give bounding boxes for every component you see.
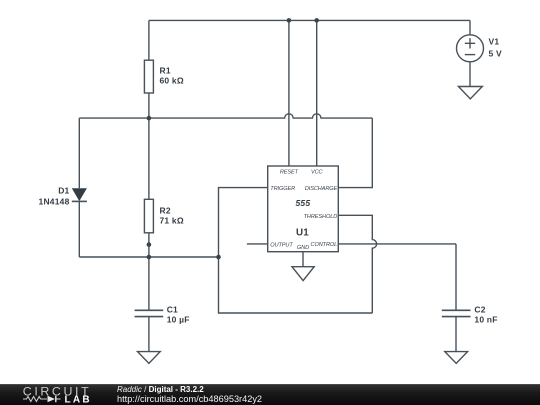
wire trigger branch	[219, 188, 373, 313]
node vcc rail junction	[314, 18, 319, 23]
capacitor C2	[442, 310, 471, 316]
node R1 bottom junction	[147, 116, 152, 121]
wire threshold branch with hop	[338, 215, 376, 313]
ground U1	[292, 267, 314, 281]
resistor R1	[144, 60, 153, 93]
wire C1 bottom lead	[148, 317, 150, 352]
wire top rail	[149, 19, 470, 21]
voltage source V1	[457, 35, 484, 62]
svg-text:R1: R1	[160, 66, 171, 76]
wire R2 bottom lead	[148, 233, 150, 257]
CircuitLab logo	[0, 384, 110, 405]
svg-text:U1: U1	[296, 228, 309, 239]
resistor R2	[144, 199, 153, 233]
wire reset riser	[288, 20, 290, 166]
svg-text:CONTROL: CONTROL	[311, 242, 338, 248]
wire bottom-left horizontal	[79, 256, 218, 258]
svg-text:LAB: LAB	[65, 395, 92, 405]
wire C2 top lead	[455, 244, 457, 310]
ground V1	[458, 87, 482, 99]
svg-text:VCC: VCC	[311, 169, 324, 175]
wire U1 gnd lead	[302, 252, 304, 267]
svg-text:5 V: 5 V	[489, 49, 502, 59]
wire R1 bottom lead	[148, 93, 150, 118]
footer bar	[0, 384, 540, 405]
capacitor C1	[135, 310, 164, 316]
node R2 bottom	[147, 242, 152, 247]
node trigger junction	[216, 255, 221, 260]
wire output stub	[247, 243, 268, 245]
svg-text:C1: C1	[167, 305, 178, 315]
node C1 top junction	[147, 255, 152, 260]
svg-text:GND: GND	[297, 245, 309, 251]
svg-text:10 µF: 10 µF	[167, 315, 190, 325]
svg-text:OUTPUT: OUTPUT	[270, 242, 293, 248]
ground C1	[138, 352, 161, 364]
footer text	[117, 385, 204, 394]
svg-text:71 kΩ: 71 kΩ	[160, 216, 184, 226]
svg-text:THRESHOLD: THRESHOLD	[304, 214, 338, 220]
wire control to C2	[338, 243, 456, 245]
wire D1 cathode lead	[78, 201, 80, 257]
wire C1 top lead	[148, 257, 150, 310]
ground C2	[445, 352, 468, 364]
svg-text:C2: C2	[474, 305, 485, 315]
svg-text:TRIGGER: TRIGGER	[270, 186, 295, 192]
svg-text:1N4148: 1N4148	[39, 196, 70, 206]
svg-text:555: 555	[296, 198, 311, 208]
op-amp U1 box	[268, 166, 339, 252]
svg-text:RESET: RESET	[280, 169, 299, 175]
wire R1 top lead	[148, 20, 150, 60]
diode D1	[72, 188, 87, 201]
svg-text:R2: R2	[160, 206, 171, 216]
wire mid horizontal with hops	[79, 114, 372, 118]
wire discharge riser	[338, 118, 372, 188]
wire R2 top lead	[148, 118, 150, 199]
wire D1 anode lead	[78, 118, 80, 188]
svg-text:D1: D1	[58, 185, 69, 195]
svg-text:V1: V1	[489, 37, 500, 47]
svg-text:DISCHARGE: DISCHARGE	[305, 186, 338, 192]
svg-text:60 kΩ: 60 kΩ	[160, 76, 184, 86]
svg-text:10 nF: 10 nF	[474, 315, 497, 325]
wire V1 bottom lead	[469, 62, 471, 87]
wire vcc riser	[316, 20, 318, 166]
wire C2 bottom lead	[455, 317, 457, 352]
wire V1 top lead	[469, 20, 471, 34]
node reset rail junction	[287, 18, 292, 23]
